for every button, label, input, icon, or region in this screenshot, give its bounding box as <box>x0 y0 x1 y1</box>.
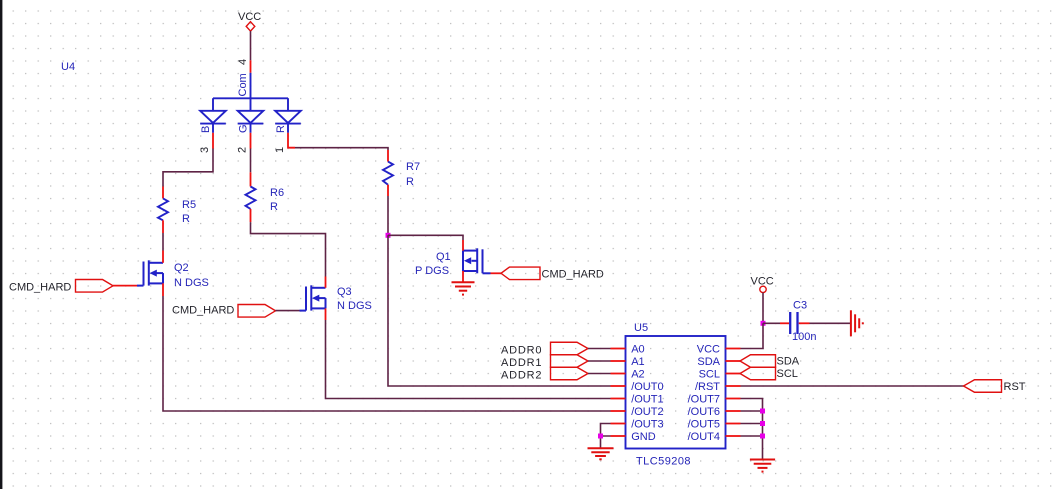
svg-text:A0: A0 <box>631 344 644 356</box>
pin stub A2 <box>611 373 626 375</box>
svg-text:B: B <box>200 126 212 133</box>
resistor R7 <box>383 150 420 196</box>
wire ADDR1 to A1 <box>588 360 611 362</box>
svg-text:CMD_HARD: CMD_HARD <box>9 282 71 294</box>
wire ADDR0 to A0 <box>588 348 611 350</box>
sheet left border <box>0 0 2 489</box>
svg-text:SCL: SCL <box>777 368 798 380</box>
pin stub /OUT6 <box>726 410 741 412</box>
pin stub /OUT0 <box>611 385 626 387</box>
pin stub LED B cathode <box>212 133 214 149</box>
ground (under U5 GND) <box>588 448 614 459</box>
wire junction to U5 VCC pin <box>741 323 764 348</box>
wire Q2 source to /OUT2 <box>163 296 611 411</box>
svg-text:CMD_HARD: CMD_HARD <box>542 268 604 280</box>
svg-text:3: 3 <box>199 147 211 153</box>
ground (bottom right) <box>750 460 775 472</box>
svg-text:ADDR0: ADDR0 <box>501 345 542 357</box>
svg-text:Com: Com <box>237 73 249 96</box>
svg-text:U4: U4 <box>61 61 75 73</box>
svg-text:R: R <box>182 213 190 225</box>
svg-text:GND: GND <box>631 431 656 443</box>
wire /RST to RST port <box>741 385 964 387</box>
pin stub /RST <box>726 385 741 387</box>
wire /OUT6 to bus <box>741 410 763 412</box>
svg-text:U5: U5 <box>634 322 648 334</box>
resistor R6 <box>246 172 285 222</box>
pin stub Q1 drain <box>462 240 464 251</box>
svg-text:CMD_HARD: CMD_HARD <box>172 305 234 317</box>
LED G (diode) <box>238 111 264 133</box>
wire C3 to ground <box>810 322 851 324</box>
pin stub A1 <box>611 360 626 362</box>
svg-text:Q2: Q2 <box>174 262 189 274</box>
wire /OUT7 bus down <box>741 399 763 460</box>
LED B (diode) <box>200 111 226 133</box>
wire junction to /OUT0 <box>388 235 611 386</box>
svg-text:SCL: SCL <box>699 369 720 381</box>
LED array U4 common lead <box>213 73 288 111</box>
wire LED B to R5 <box>163 149 213 187</box>
pin stub Q3 drain <box>325 277 327 288</box>
power VCC (right) <box>751 275 774 292</box>
svg-text:4: 4 <box>237 59 249 65</box>
svg-text:/OUT1: /OUT1 <box>631 394 663 406</box>
svg-text:RST: RST <box>1004 381 1026 393</box>
svg-text:100n: 100n <box>792 331 816 343</box>
port SCL (points left) <box>740 367 798 380</box>
wire junction to C3 <box>763 322 780 324</box>
port SDA (points left) <box>740 355 800 368</box>
svg-text:N DGS: N DGS <box>174 277 209 289</box>
pin stub /OUT2 <box>611 410 626 412</box>
junction node (R7 / Q1 / OUT0) <box>386 233 391 238</box>
junction node /OUT6 <box>760 409 765 414</box>
pin stub Q1 source <box>462 271 464 282</box>
wire ADDR2 to A2 <box>588 373 611 375</box>
wire LED R to R7 <box>295 148 388 150</box>
LED R (diode) <box>275 111 301 133</box>
svg-text:TLC59208: TLC59208 <box>636 456 691 468</box>
wire /OUT5 to bus <box>741 423 763 425</box>
pin stub /OUT4 <box>726 435 741 437</box>
pin stub SCL <box>726 373 741 375</box>
svg-text:ADDR2: ADDR2 <box>501 370 542 382</box>
pin stub SDA <box>726 360 741 362</box>
svg-text:/OUT3: /OUT3 <box>631 419 663 431</box>
wire R5 to Q2 drain <box>162 233 164 251</box>
svg-text:R7: R7 <box>406 161 420 173</box>
svg-text:R6: R6 <box>270 187 284 199</box>
svg-text:/OUT7: /OUT7 <box>688 394 720 406</box>
junction node /OUT5 <box>760 421 765 426</box>
pin stub LED R cathode <box>288 133 295 148</box>
svg-text:/RST: /RST <box>695 381 720 393</box>
svg-text:/OUT5: /OUT5 <box>688 419 720 431</box>
ground (right of C3, points right) <box>851 310 863 336</box>
svg-text:1: 1 <box>274 147 286 153</box>
svg-text:/OUT2: /OUT2 <box>631 406 663 418</box>
svg-text:G: G <box>238 124 250 133</box>
pin stub VCC <box>726 348 741 350</box>
svg-text:ADDR1: ADDR1 <box>501 357 542 369</box>
junction node VCC/C3 <box>761 321 766 326</box>
pin stub /OUT5 <box>726 423 741 425</box>
wire R6 to Q3 drain <box>251 222 326 276</box>
capacitor C3 <box>780 300 816 344</box>
wire /OUT4 to bus <box>741 435 763 437</box>
svg-text:VCC: VCC <box>697 344 720 356</box>
wire R7 to junction <box>387 196 389 235</box>
pin stub A0 <box>611 348 626 350</box>
svg-text:N DGS: N DGS <box>337 300 372 312</box>
svg-text:R: R <box>275 125 287 133</box>
svg-text:/OUT0: /OUT0 <box>631 381 663 393</box>
svg-text:R: R <box>406 176 414 188</box>
port ADDR1 <box>501 355 588 369</box>
wire /OUT3 to GND node <box>601 424 611 437</box>
pin stub LED G cathode <box>250 133 252 149</box>
transistor Q2 (N DGS) <box>137 260 163 285</box>
svg-text:/OUT4: /OUT4 <box>688 431 720 443</box>
IC U5 TLC59208 <box>626 322 726 468</box>
wire GND pin to ground <box>601 436 611 448</box>
svg-text:Q3: Q3 <box>337 286 352 298</box>
pin stub /OUT3 <box>611 423 626 425</box>
wire VCC right down <box>762 293 764 324</box>
wire junction to Q1 drain <box>388 235 463 240</box>
svg-text:2: 2 <box>237 147 249 153</box>
svg-text:P DGS: P DGS <box>415 265 449 277</box>
svg-text:/OUT6: /OUT6 <box>688 406 720 418</box>
svg-text:R5: R5 <box>182 199 196 211</box>
transistor Q1 (P DGS) <box>463 248 491 273</box>
ground (under Q1) <box>452 282 475 294</box>
port ADDR0 <box>501 342 588 356</box>
pin stub Q3 source <box>325 308 327 320</box>
svg-text:Q1: Q1 <box>436 251 451 263</box>
svg-text:C3: C3 <box>793 300 807 312</box>
pin stub Q2 drain <box>162 251 164 263</box>
svg-text:A1: A1 <box>631 356 644 368</box>
transistor Q3 (N DGS) <box>300 285 326 310</box>
junction node /OUT4 <box>760 434 765 439</box>
svg-text:A2: A2 <box>631 369 644 381</box>
port RST (points left) <box>964 380 1026 393</box>
svg-text:SDA: SDA <box>777 356 800 368</box>
wire LED G to R6 <box>250 149 252 173</box>
port ADDR2 <box>501 367 588 381</box>
resistor R5 <box>158 187 196 234</box>
port CMD_HARD (Q1 gate, points left) <box>491 267 604 280</box>
svg-text:VCC: VCC <box>751 275 774 287</box>
svg-text:SDA: SDA <box>697 356 720 368</box>
junction node GND <box>598 434 603 439</box>
port CMD_HARD (Q3 gate) <box>172 305 300 318</box>
pin stub Q2 source <box>162 283 164 296</box>
svg-text:VCC: VCC <box>238 11 261 23</box>
svg-text:R: R <box>270 201 278 213</box>
pin stub /OUT1 <box>611 398 626 400</box>
pin stub Com <box>250 60 252 73</box>
power VCC (top) <box>238 11 261 31</box>
pin stub /OUT7 <box>726 398 741 400</box>
pin stub GND <box>611 435 626 437</box>
wire Q3 source to /OUT1 <box>326 320 611 399</box>
port CMD_HARD (Q2 gate) <box>9 280 137 294</box>
wire VCC to LED common <box>250 31 252 60</box>
